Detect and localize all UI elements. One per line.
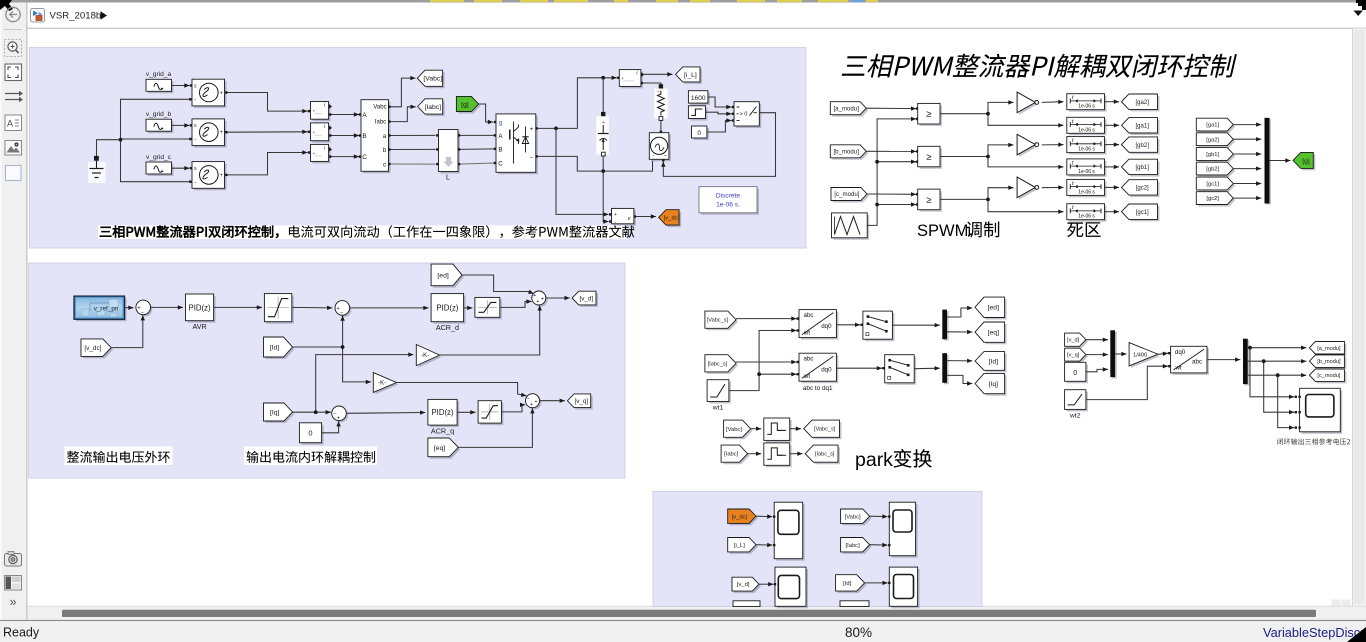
wire i meas to resistor <box>641 82 661 86</box>
svg-text:+: + <box>530 402 533 408</box>
svg-text:c: c <box>383 161 386 168</box>
from tag v_d mod <box>1065 333 1088 348</box>
wire wt2 to dq0-abc <box>1086 364 1171 400</box>
wire source C to i meas C <box>228 150 311 175</box>
wire v_ref_pn to sum1 <box>125 306 134 310</box>
cursor artifact bottom-right <box>1347 627 1366 642</box>
svg-text:[Id]: [Id] <box>843 581 851 587</box>
svg-text:[c_modu]: [c_modu] <box>1317 373 1340 379</box>
ramp wt2 <box>1065 390 1088 420</box>
wire 1600 to switch <box>708 97 734 109</box>
svg-text:> 0: > 0 <box>740 112 748 118</box>
toolbar icon: back arrow <box>6 7 20 21</box>
goto tag ga2 <box>1122 94 1160 111</box>
transport delay ga1 <box>1067 117 1107 135</box>
wire eq to sum4 <box>458 408 534 447</box>
wire g to bridge gate <box>479 104 497 124</box>
from tag eq <box>428 438 460 459</box>
wire i meas B to VI block B <box>329 133 361 137</box>
junction DC plus <box>554 126 558 130</box>
wire gain lower to sum4 <box>397 383 527 397</box>
goto tag Vabc <box>417 70 444 88</box>
sum3 vd output <box>532 291 548 307</box>
abc to dq0 block v <box>799 310 838 340</box>
svg-text:v_grid_a: v_grid_a <box>146 71 172 78</box>
universal bridge (IGBT) block <box>496 114 538 174</box>
wire VI b to L <box>388 148 438 151</box>
wire ed to sum3 <box>462 275 534 294</box>
goto tag gb1 <box>1122 159 1160 176</box>
from tag v_dc scope (orange) <box>728 509 758 525</box>
svg-text:[Id]: [Id] <box>989 358 999 365</box>
wire mux to goto g <box>1269 158 1290 162</box>
wire gc1 to mux <box>1233 181 1261 185</box>
demux ed eq <box>942 310 948 341</box>
from tag Iabc rt <box>721 445 750 464</box>
svg-text:park: park <box>855 449 893 471</box>
wire v_d to scope3 <box>759 582 773 586</box>
goto tag v_q <box>567 394 592 410</box>
wire bridge plus rail <box>535 76 619 130</box>
transport delay ga2 <box>1067 94 1107 112</box>
wire delay to goto gb2 <box>1105 142 1120 146</box>
wire Iq net <box>293 352 414 414</box>
wire wt1 to dq blocks <box>729 328 799 390</box>
svg-text:[v_dc]: [v_dc] <box>664 216 680 222</box>
wire demux3 c net <box>1248 373 1307 430</box>
svg-text:[ga2]: [ga2] <box>1136 100 1150 106</box>
svg-text:[Iabc_s]: [Iabc_s] <box>708 361 728 367</box>
svg-text:[v_dc]: [v_dc] <box>84 345 101 352</box>
svg-text:wt: wt <box>803 329 810 336</box>
wire ga2 to mux <box>1233 137 1261 141</box>
wire demux3 b net <box>1248 359 1307 414</box>
load resistor branch <box>654 89 667 121</box>
wire v_grid_a to source A <box>172 83 193 87</box>
from tag gb2 <box>1196 162 1235 177</box>
wire Vabc to rate transition 1 <box>751 427 762 431</box>
svg-text:+: + <box>534 399 537 405</box>
svg-text:B: B <box>362 133 366 140</box>
mux dq0 <box>1110 330 1117 378</box>
rate transition 1 <box>764 418 792 442</box>
from tag gc1 <box>1196 177 1235 192</box>
svg-text:[Id]: [Id] <box>270 344 280 351</box>
model icon <box>31 9 45 23</box>
svg-text:PID(z): PID(z) <box>436 304 458 313</box>
wire sum2 to ACR_d <box>350 306 429 310</box>
AC voltage source C <box>189 162 227 191</box>
goto tag i_L <box>676 67 703 84</box>
scope v_d <box>774 567 808 608</box>
switch block <box>734 102 761 128</box>
from tag Vabc scope <box>841 509 872 525</box>
wire relational b out <box>940 143 1064 169</box>
transport delay gc2 <box>1067 179 1107 197</box>
scope Vabc Iabc <box>888 502 918 558</box>
svg-text:v_grid_c: v_grid_c <box>146 154 172 161</box>
svg-text:-K-: -K- <box>421 353 429 359</box>
svg-text:A: A <box>362 112 367 119</box>
demux abc mod <box>1243 339 1249 386</box>
svg-text:-: - <box>194 97 196 104</box>
label SPWM <box>917 221 999 240</box>
wire demux2 to goto Iq <box>947 375 972 385</box>
svg-text:»: » <box>10 595 17 609</box>
wire saturation3 to sum4 <box>501 403 525 412</box>
wire i meas to goto i_L <box>643 72 673 76</box>
wire DC minus to voltage meas <box>603 171 611 224</box>
junction wt1 <box>757 372 761 376</box>
goto tag Iabc <box>418 99 445 116</box>
wire a_modu to relational a <box>866 106 918 110</box>
from tag Iabc_s <box>705 355 738 374</box>
goto tag gb2 <box>1122 137 1160 154</box>
wire delay to goto ga2 <box>1105 100 1120 104</box>
goto tag v_dc (orange) <box>659 210 682 227</box>
svg-text:[Vabc_s]: [Vabc_s] <box>814 427 836 433</box>
svg-text:0: 0 <box>697 130 701 137</box>
svg-text:AVR: AVR <box>192 322 206 331</box>
three-phase VI measurement block <box>361 100 391 174</box>
svg-text:80%: 80% <box>845 625 872 640</box>
svg-text:+: + <box>621 76 624 81</box>
wire relational a out <box>940 100 1064 127</box>
svg-text:PID(z): PID(z) <box>431 408 453 417</box>
wire delay to goto gc2 <box>1105 185 1120 189</box>
goto tag Id <box>975 352 1007 373</box>
scope Id <box>888 567 920 608</box>
AC voltage source B <box>189 119 227 148</box>
wire demux2 to goto Id <box>947 359 972 363</box>
gain wL upper <box>416 345 441 368</box>
svg-text:[b_modu]: [b_modu] <box>1317 359 1341 365</box>
svg-text:≥: ≥ <box>926 195 931 206</box>
wire saturation1 to sum2 <box>292 306 333 310</box>
constant 1600 <box>688 91 710 105</box>
toolbar icon: zoom <box>5 40 22 57</box>
abc to dq0 block i <box>799 353 838 392</box>
wire demux3 a net <box>1248 346 1307 400</box>
svg-text:C: C <box>498 161 503 168</box>
wire demux1 to goto eq <box>947 330 972 334</box>
toolbar icon: image <box>5 141 22 156</box>
from tag ed <box>431 264 464 288</box>
transport delay gb2 <box>1067 137 1107 155</box>
saturation 1 <box>264 294 293 324</box>
current measurement A <box>311 102 333 122</box>
wire sum4 to goto v_q <box>540 399 565 403</box>
PID controller ACR_q <box>428 399 459 435</box>
label v_grid_b <box>146 111 172 118</box>
toolbar icon: more chevrons <box>10 595 17 609</box>
status text zoom <box>845 625 872 640</box>
mux gate signals <box>1265 118 1272 205</box>
wire sum3 to goto v_d <box>546 296 570 300</box>
svg-text:≥: ≥ <box>926 152 931 163</box>
breadcrumb dropdown arrow right <box>1354 11 1364 17</box>
svg-text:+: + <box>220 173 224 179</box>
wire NOT c to delay <box>1042 185 1064 189</box>
svg-text:1e-06 s: 1e-06 s <box>1078 169 1095 175</box>
wire b_modu to relational b <box>866 149 918 153</box>
purple area: power circuit <box>30 48 807 249</box>
svg-text:A: A <box>7 119 13 129</box>
cursor artifact top-right <box>1356 0 1366 10</box>
toolbar icon: signal arrows <box>5 91 23 102</box>
toolbar icon: annotation <box>5 115 22 131</box>
purple area: scopes <box>653 492 982 607</box>
wire L b to bridge B <box>458 148 496 151</box>
relational operator b <box>918 146 942 169</box>
gain 1-400 <box>1129 343 1160 368</box>
wire c_modu to relational c <box>867 192 918 196</box>
saturation 3 <box>478 401 503 425</box>
wire v_grid_c to source C <box>172 166 193 170</box>
wire mux to gain <box>1115 352 1127 356</box>
wire delay to goto gb1 <box>1105 165 1120 169</box>
svg-text:Ready: Ready <box>3 626 40 640</box>
from tag Id scope <box>836 575 867 593</box>
wire cap bottom <box>602 156 604 171</box>
wire selector2 to demux2 <box>914 366 940 370</box>
from tag Vabc rt <box>724 420 753 439</box>
svg-text:1600: 1600 <box>691 95 706 102</box>
wire v_d to mux <box>1086 338 1108 342</box>
svg-text:abc to dq1: abc to dq1 <box>803 385 833 392</box>
wire i meas C to VI block C <box>329 154 361 158</box>
wire gc2 to mux <box>1233 196 1261 200</box>
svg-text:-K-: -K- <box>378 381 386 387</box>
from tag ga2 <box>1196 133 1235 148</box>
svg-text:a: a <box>383 133 387 140</box>
from tag v_dc <box>81 339 113 359</box>
AC voltage source A <box>189 79 227 108</box>
svg-text:[i_L]: [i_L] <box>684 72 697 79</box>
svg-text:−: − <box>141 310 144 316</box>
wire 0 to sum5 <box>322 421 341 433</box>
wire 0 to mux <box>1086 367 1108 372</box>
wire sum5 to ACR_q <box>347 410 425 414</box>
svg-text:dq0: dq0 <box>1175 349 1186 356</box>
step block <box>688 106 707 121</box>
svg-text:[ga1]: [ga1] <box>1136 124 1150 130</box>
svg-text:[g]: [g] <box>461 101 469 108</box>
wire gb1 to mux <box>1233 152 1261 156</box>
svg-text:0: 0 <box>308 429 312 438</box>
constant 0 q-ref <box>299 423 323 445</box>
svg-text:[gb1]: [gb1] <box>1136 165 1150 171</box>
svg-text:[gb2]: [gb2] <box>1206 167 1219 173</box>
capacitor C branch <box>596 116 608 156</box>
junction Iq <box>314 410 318 414</box>
toolbar icon: layout <box>5 576 22 591</box>
svg-text:wt: wt <box>1175 365 1182 372</box>
svg-text:s: s <box>194 166 197 172</box>
wire VI a to L <box>388 134 438 137</box>
cursor artifact top-left <box>0 0 13 11</box>
toolbar separator <box>4 29 22 31</box>
resistor terminal top <box>659 84 663 88</box>
svg-text:[v_dc]: [v_dc] <box>732 514 748 520</box>
constant 0 <box>692 126 709 140</box>
from tag Iabc scope <box>841 538 872 554</box>
svg-text:[Vabc]: [Vabc] <box>726 427 742 433</box>
wire cap top riser <box>602 78 604 114</box>
label v_grid_a <box>146 71 172 78</box>
wire saturation2 to sum3 <box>500 299 532 307</box>
svg-text:1e-06 s: 1e-06 s <box>1078 104 1095 110</box>
current measurement C <box>311 144 333 163</box>
svg-text:s: s <box>194 84 197 90</box>
svg-text:[c_modu]: [c_modu] <box>834 191 859 198</box>
svg-text:[Iq]: [Iq] <box>270 409 280 416</box>
svg-text:v_grid_b: v_grid_b <box>146 111 172 118</box>
wire v_dc to scope1 <box>756 514 772 518</box>
wire bridge minus rail <box>535 155 652 171</box>
svg-text:[Vabc_s]: [Vabc_s] <box>707 318 729 324</box>
from tag Vabc_s <box>705 311 738 330</box>
junction a_modu <box>1248 346 1252 350</box>
wire i meas A to VI block A <box>329 112 361 116</box>
wire VI to goto Iabc <box>388 105 416 123</box>
sum2 d-axis error <box>335 301 351 317</box>
wire to ground <box>97 140 121 156</box>
svg-text:[gc2]: [gc2] <box>1136 186 1149 192</box>
svg-text:[gc1]: [gc1] <box>1206 182 1219 188</box>
rate transition 2 <box>764 443 792 467</box>
toolbar icon remnants (yellow) <box>430 0 878 2</box>
vertical scrollbar <box>1353 28 1366 606</box>
relational operator c <box>918 189 942 212</box>
caption closed loop reference <box>1277 438 1350 445</box>
goto tag a_modu <box>1309 342 1346 357</box>
caption voltage outer loop <box>65 447 173 466</box>
status text Ready <box>3 626 40 640</box>
controlled current source <box>649 133 671 162</box>
svg-text:[a_modu]: [a_modu] <box>1317 346 1341 352</box>
from tag Iq <box>264 403 295 423</box>
svg-text:[eq]: [eq] <box>988 330 999 337</box>
selector block 1 <box>863 311 895 341</box>
wire resistor to current source <box>660 120 662 133</box>
scope 3-phase reference <box>1298 388 1342 434</box>
wire relational c out <box>940 186 1064 214</box>
svg-text:C: C <box>362 154 367 161</box>
svg-text:wt2: wt2 <box>1069 412 1081 419</box>
wire Vabc to scope2 <box>870 514 888 518</box>
ground terminal <box>94 156 99 161</box>
goto tag Iabc_s <box>805 445 840 464</box>
svg-text:[i_L]: [i_L] <box>734 543 745 549</box>
wire delay to goto gc1 <box>1105 210 1120 214</box>
voltage measurement v_dc <box>612 208 636 225</box>
annotation text regular <box>289 225 634 238</box>
wire NOT b to delay <box>1042 143 1064 147</box>
goto tag b_modu <box>1309 355 1346 370</box>
ground symbol <box>88 161 106 183</box>
svg-text:VariableStepDiscrete: VariableStepDiscrete <box>1263 625 1366 640</box>
junction Id <box>341 345 345 349</box>
svg-text:[v_d]: [v_d] <box>579 295 593 302</box>
transport delay gc1 <box>1067 204 1107 222</box>
svg-text:+: + <box>337 416 340 422</box>
powergui block <box>699 187 759 215</box>
sum1 voltage error <box>136 300 152 316</box>
goto tag Vabc_s <box>804 420 842 439</box>
svg-text:[a_modu]: [a_modu] <box>833 105 859 112</box>
goto tag ed <box>975 297 1007 319</box>
svg-text:[gb2]: [gb2] <box>1136 143 1150 149</box>
wire ACR_d to saturation2 <box>464 306 473 310</box>
breadcrumb text VSR_2018b <box>50 11 102 22</box>
svg-text:Discrete: Discrete <box>716 193 741 200</box>
from tag c_modu <box>831 188 869 203</box>
svg-text:[v_d]: [v_d] <box>737 582 750 588</box>
svg-text:-: - <box>194 136 196 143</box>
wire ACR_q to saturation3 <box>457 410 475 414</box>
goto tag gc2 <box>1122 180 1160 197</box>
svg-text:[gb1]: [gb1] <box>1206 152 1219 158</box>
junction triangle c <box>875 203 879 207</box>
svg-text:[Iabc]: [Iabc] <box>424 104 441 111</box>
svg-text:[ga1]: [ga1] <box>1206 123 1219 129</box>
svg-text:[ga2]: [ga2] <box>1206 137 1219 143</box>
from tag a_modu <box>830 102 868 117</box>
svg-text:+: + <box>536 299 539 305</box>
junction c_modu <box>1276 373 1280 377</box>
sine block v_grid_c <box>146 162 174 176</box>
toolbar icon: fit to view <box>5 64 22 81</box>
svg-text:−: − <box>340 310 343 316</box>
wire step to switch <box>706 112 735 116</box>
svg-text:[gc1]: [gc1] <box>1136 210 1149 216</box>
top toolbar cut-off strip <box>0 0 1358 3</box>
goto tag gc1 <box>1122 204 1160 221</box>
svg-text:+: + <box>220 130 224 136</box>
from tag v_d scope <box>732 577 761 593</box>
svg-text:[ed]: [ed] <box>988 305 999 312</box>
svg-text:0: 0 <box>1073 368 1077 377</box>
relational operator a <box>918 103 942 126</box>
label v_grid_c <box>146 154 172 161</box>
partial tag bottom left <box>733 601 760 607</box>
wire Iabc_s to abc-dq0 i <box>736 360 799 364</box>
toolbar icon: camera <box>5 552 22 567</box>
svg-text:[v_d]: [v_d] <box>1067 338 1080 344</box>
wire v_dc to sum1 <box>111 315 145 347</box>
wire Iq junction to sum5 <box>0 0 1 1</box>
svg-text:wt: wt <box>803 373 810 380</box>
svg-text:Vabc: Vabc <box>373 105 386 111</box>
svg-text:B: B <box>498 147 502 154</box>
wire selector1 to demux1 <box>892 323 939 327</box>
svg-text:1/400: 1/400 <box>1133 352 1147 358</box>
wire source A to i meas A <box>228 93 311 114</box>
goto tag eq <box>975 322 1007 344</box>
breadcrumb bar <box>28 3 1366 29</box>
breadcrumb arrow <box>101 11 108 19</box>
svg-text:[Vabc]: [Vabc] <box>423 76 442 83</box>
svg-text:SPWM: SPWM <box>917 222 968 240</box>
wire i_L to scope1 <box>756 543 772 547</box>
svg-text:+: + <box>313 130 316 135</box>
selector block 2 <box>885 355 917 385</box>
junction neutral <box>119 138 123 142</box>
svg-text:+: + <box>220 91 224 97</box>
svg-text:Iabc: Iabc <box>375 120 386 126</box>
from tag v_q mod <box>1065 348 1088 363</box>
